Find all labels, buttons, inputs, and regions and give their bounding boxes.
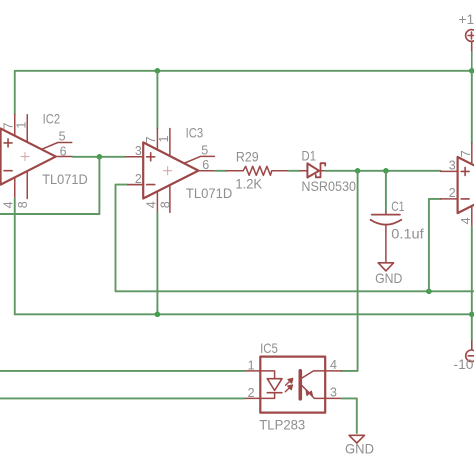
- svg-text:2: 2: [449, 186, 456, 200]
- label IC3 name/value/pins: [135, 125, 232, 208]
- svg-text:4: 4: [2, 201, 16, 208]
- wire: IC5 pin1 input from left edge: [0, 370, 244, 372]
- node: junction V- rail at IC3 pin4: [155, 312, 161, 318]
- svg-text:8: 8: [159, 201, 173, 208]
- wire: IC3 output pin 6 lead: [198, 170, 215, 172]
- wire: branch down to IC5 pin4: [342, 171, 358, 371]
- wire: IC2 output pin 6 lead: [56, 156, 73, 158]
- label GND at IC5: [345, 441, 374, 456]
- capacitor C1 0.1uf: [371, 212, 402, 262]
- svg-text:4: 4: [459, 217, 473, 224]
- wire: R29 to D1: [289, 170, 301, 172]
- wire: top V+ rail from IC2 pin7 to +10 supply: [15, 71, 472, 115]
- svg-text:0.1uf: 0.1uf: [391, 226, 424, 241]
- svg-text:4: 4: [330, 358, 337, 372]
- wire: IC5 pin2 input from left edge: [0, 397, 244, 399]
- node: junction IC2 output feedback tee: [97, 154, 103, 160]
- node: junction D1 net / C1 branch: [383, 168, 389, 174]
- wire: IC3 pin7 drop from top rail: [156, 71, 158, 129]
- svg-text:3: 3: [449, 159, 456, 173]
- svg-text:7: 7: [459, 150, 473, 157]
- power -10V supply symbol: [466, 341, 474, 362]
- svg-text:8: 8: [16, 201, 30, 208]
- power +10V supply symbol: [466, 30, 474, 71]
- svg-text:IC5: IC5: [260, 341, 278, 356]
- label -10: [454, 357, 474, 372]
- ground GND at C1: [378, 263, 393, 271]
- svg-text:1: 1: [157, 136, 171, 143]
- label right op-amp pins: [449, 150, 473, 224]
- svg-text:2: 2: [248, 386, 255, 400]
- label +10: [459, 12, 474, 27]
- wire: IC3 pin2 lead: [126, 184, 143, 186]
- label R29 / 1.2K: [235, 149, 262, 191]
- svg-text:-10V: -10V: [454, 357, 474, 372]
- svg-text:TLP283: TLP283: [259, 418, 305, 433]
- wire: right op-amp pin4 down to -10 supply: [471, 227, 473, 341]
- svg-text:7: 7: [1, 123, 15, 130]
- wire: right op-amp pin7 drop from supply junction: [471, 71, 473, 143]
- node: junction V- rail at -10 supply: [469, 312, 474, 318]
- svg-text:C1: C1: [391, 199, 404, 214]
- node: junction feedback / right op-amp pin2: [426, 289, 432, 295]
- wire: IC2 pin4 drop to V- rail: [14, 199, 16, 315]
- wire: IC3 feedback net (pin2 left, down, across bottom to right edge): [116, 185, 474, 292]
- node: junction D1 net / IC5 branch: [355, 168, 361, 174]
- svg-text:5: 5: [201, 143, 208, 157]
- wire: bottom V- rail: [15, 313, 472, 315]
- op-amp IC3: [126, 129, 214, 213]
- svg-text:R29: R29: [236, 149, 259, 164]
- svg-text:7: 7: [144, 136, 158, 143]
- svg-text:GND: GND: [375, 271, 402, 286]
- wire: IC3 output to R29: [215, 170, 226, 172]
- label GND at C1: [375, 271, 402, 286]
- svg-text:TL071D: TL071D: [42, 172, 88, 187]
- svg-text:3: 3: [135, 144, 142, 158]
- op-amp IC2 (partial, left edge): [1, 115, 72, 199]
- wire: right op-amp pin2 down to feedback: [429, 199, 441, 291]
- svg-text:GND: GND: [345, 441, 374, 456]
- svg-text:D1: D1: [302, 148, 317, 163]
- op-amp IC1 (right, partial): [441, 143, 474, 227]
- svg-text:5: 5: [59, 129, 66, 143]
- wire: D1 to right op-amp +in: [326, 170, 441, 172]
- node: junction top rail at supply: [469, 68, 474, 74]
- ground GND at IC5: [349, 435, 364, 443]
- label IC5 name/value/pins: [248, 341, 337, 433]
- svg-text:TL071D: TL071D: [186, 186, 232, 201]
- label C1 / 0.1uf: [391, 199, 424, 241]
- wire: IC5 pin3 to ground: [342, 398, 357, 433]
- diode D1 NSR0530 (schottky): [301, 163, 327, 177]
- optocoupler IC5 TLP283: [244, 357, 341, 413]
- svg-text:1.2K: 1.2K: [235, 177, 262, 192]
- svg-text:1: 1: [15, 122, 29, 129]
- wire: branch down to C1: [385, 171, 387, 212]
- label D1 / NSR0530: [301, 148, 356, 194]
- label IC2 name/value/pins: [1, 111, 87, 208]
- svg-text:4: 4: [144, 201, 158, 208]
- wire: IC2 output net to IC3 +in: [73, 156, 126, 158]
- svg-text:IC3: IC3: [186, 125, 204, 140]
- resistor R29 1.2K: [226, 166, 289, 175]
- wire: IC3 pin4 drop to V- rail: [156, 212, 158, 314]
- svg-text:+10: +10: [459, 12, 474, 27]
- svg-text:NSR0530: NSR0530: [301, 179, 356, 194]
- svg-text:1: 1: [248, 358, 255, 372]
- svg-text:3: 3: [330, 386, 337, 400]
- svg-text:IC2: IC2: [43, 111, 61, 126]
- wire: IC2 feedback down and left off-page: [0, 157, 99, 214]
- node: junction top rail at IC3 pin7: [155, 68, 161, 74]
